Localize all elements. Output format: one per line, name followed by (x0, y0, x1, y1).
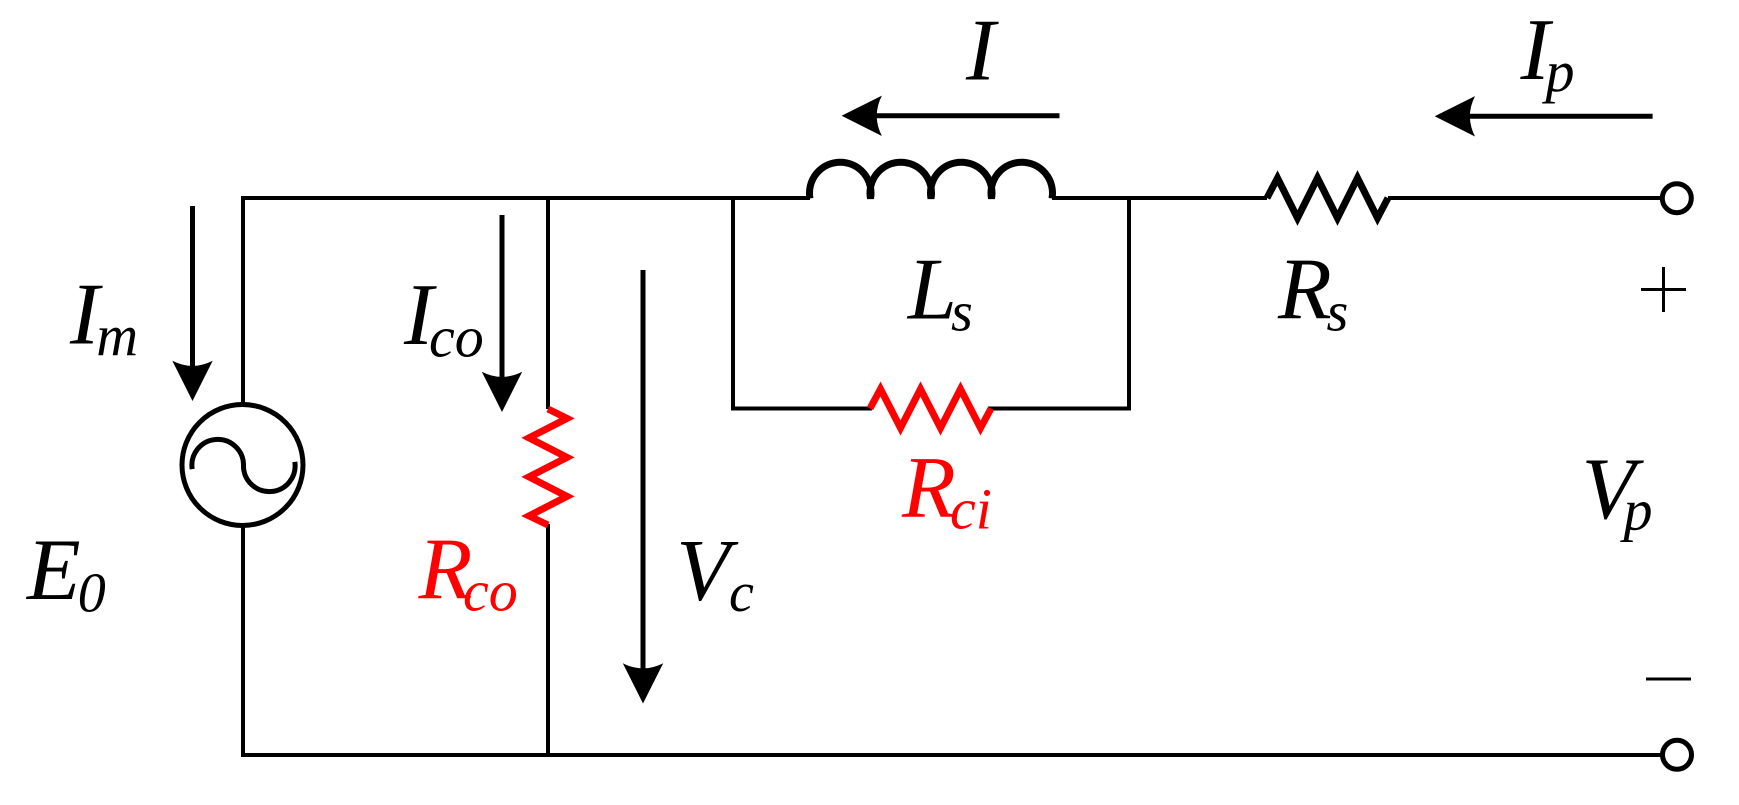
resistor Rs (1267, 178, 1388, 218)
svg-text:s: s (1327, 282, 1349, 344)
svg-text:L: L (906, 242, 957, 339)
arrow I shaft (871, 113, 1060, 118)
svg-text:co: co (463, 559, 518, 624)
wire: box bottom right segment (988, 407, 1131, 411)
svg-text:0: 0 (78, 563, 106, 625)
wire: AC source bottom lead (241, 524, 245, 757)
wire: top rail between inductor and resistor Rs (1052, 196, 1267, 200)
svg-text:c: c (729, 562, 754, 624)
wire: Rco top lead (546, 198, 550, 409)
svg-text:R: R (901, 440, 956, 537)
svg-text:I: I (965, 3, 999, 100)
svg-text:E: E (25, 522, 81, 619)
minus sign (1646, 678, 1691, 681)
wire: parallel box right vertical (1127, 198, 1131, 409)
svg-text:co: co (429, 305, 484, 370)
terminal top-right (1662, 184, 1691, 213)
arrow Ico shaft (500, 215, 505, 383)
arrow Ico head (482, 372, 522, 412)
arrow Im shaft (190, 206, 195, 372)
AC source E0 circle (182, 405, 303, 526)
plus sign (1641, 267, 1686, 312)
arrow Im head (172, 361, 212, 401)
svg-text:R: R (1277, 242, 1332, 339)
wire: top-left corner from AC source top to top rail (243, 198, 810, 406)
arrow Ip head (1435, 96, 1475, 136)
svg-text:s: s (951, 282, 973, 344)
svg-text:m: m (96, 303, 138, 368)
wire: bottom rail (241, 753, 1662, 757)
arrow I head (842, 96, 882, 136)
svg-text:p: p (1620, 478, 1653, 543)
wire: parallel box left vertical (731, 198, 735, 409)
svg-text:ci: ci (950, 477, 992, 542)
svg-text:p: p (1542, 39, 1575, 104)
wire: box bottom left segment (731, 407, 872, 411)
resistor Rco (red, vertical) (529, 409, 567, 525)
wire: top rail from Rs to right terminal (1388, 196, 1662, 200)
terminal bottom-right (1663, 740, 1692, 769)
wire: Rco bottom lead (546, 524, 550, 755)
arrow Vc shaft (641, 270, 646, 674)
arrow Ip shaft (1464, 114, 1653, 119)
AC source sine wave (192, 439, 295, 491)
inductor Ls (810, 162, 1053, 198)
resistor Rci (red) (870, 389, 991, 428)
arrow Vc head (623, 663, 663, 703)
